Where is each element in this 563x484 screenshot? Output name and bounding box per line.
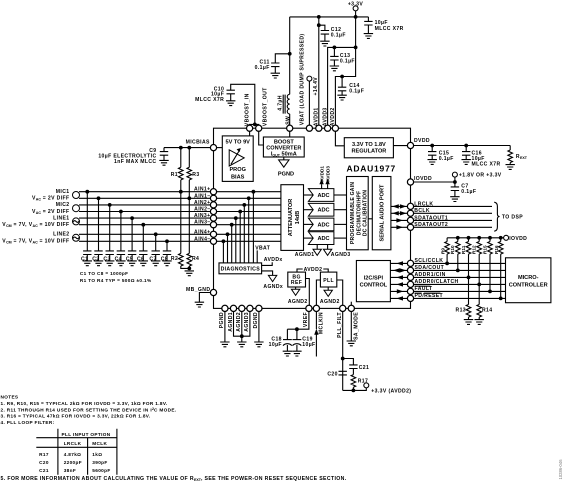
- ground AGND2 under BG REF: [288, 287, 308, 305]
- junction ADDR1 R11: [467, 276, 471, 280]
- pin PLL_FILT wire: [337, 308, 343, 390]
- svg-text:C7: C7: [149, 256, 156, 262]
- wire AIN4- row: [79, 240, 214, 242]
- svg-text:5600pF: 5600pF: [92, 468, 110, 473]
- resistor R11: [461, 238, 471, 278]
- svg-text:R4: R4: [192, 256, 199, 262]
- pin MCLKIN wire with arrow: [314, 308, 324, 356]
- wire SDA/COUT: [414, 269, 506, 271]
- svg-text:BIAS: BIAS: [231, 174, 245, 180]
- svg-text:10µF: 10µF: [302, 342, 315, 348]
- pin AVDD2: [332, 125, 338, 131]
- svg-text:MB_GND: MB_GND: [186, 287, 210, 293]
- svg-text:C20: C20: [39, 460, 49, 465]
- svg-text:10µF: 10µF: [269, 342, 282, 348]
- svg-text:R1 TO R4 TYP = 500Ω ±0.1%: R1 TO R4 TYP = 500Ω ±0.1%: [80, 278, 152, 283]
- pin SA_MODE: [348, 305, 354, 311]
- svg-text:DGND: DGND: [253, 312, 259, 329]
- pin FAULT: [407, 288, 413, 294]
- wire PLL to MCLKIN pin: [316, 280, 320, 308]
- junction R2/R4 ground node: [187, 267, 191, 271]
- capacitor C14: [337, 77, 364, 101]
- capacitor C7 input: [149, 232, 160, 265]
- svg-text:AGNDx: AGNDx: [263, 284, 283, 290]
- wire AIN1- row: [79, 197, 214, 199]
- connector MIC2: [32, 202, 80, 215]
- wire PD/RESET: [414, 297, 506, 299]
- ground PGND arrow: [278, 157, 294, 178]
- svg-text:PROGRAMMABLE GAIN: PROGRAMMABLE GAIN: [350, 182, 356, 244]
- svg-text:3.3V TO 1.8V: 3.3V TO 1.8V: [352, 142, 386, 148]
- junction R1 AIN1+: [179, 190, 183, 194]
- wire SW internal: [289, 128, 291, 137]
- resistor R2: [171, 192, 189, 269]
- pin VBOOST_OUT: [256, 125, 262, 131]
- junction R3 AIN1-: [187, 196, 191, 200]
- wire IOVDD pullup rail: [447, 237, 504, 239]
- wire AIN1+ row: [79, 191, 214, 193]
- capacitor 10uF MLCC X7R (top right): [364, 17, 404, 38]
- svg-text:MIC2: MIC2: [56, 202, 70, 208]
- wire serial port SDATAOUT1: [391, 218, 408, 222]
- svg-text:REGULATOR: REGULATOR: [351, 148, 386, 154]
- junction rail R16: [499, 236, 503, 240]
- svg-text:1. R9, R10, R15 = TYPICAL 2kΩ: 1. R9, R10, R15 = TYPICAL 2kΩ FOR IOVDD …: [1, 401, 168, 406]
- wire ADDR1/CIN internal: [390, 275, 407, 279]
- svg-text:1nF MAX MLCC: 1nF MAX MLCC: [114, 159, 156, 165]
- pin AIN1-: [210, 195, 216, 201]
- svg-text:AIN1–: AIN1–: [194, 193, 210, 199]
- wire PD/RESET internal: [390, 296, 407, 300]
- svg-text:MCLK: MCLK: [92, 441, 107, 446]
- pin AGND3 wire: [242, 308, 250, 336]
- label FAULT overline: [415, 286, 433, 292]
- block 5V TO 9V PROG BIAS U-internal: [222, 136, 253, 182]
- svg-text:MIC1: MIC1: [56, 189, 70, 195]
- svg-text:AVDD1: AVDD1: [314, 107, 320, 126]
- svg-text:AVDD3: AVDD3: [325, 166, 330, 182]
- junction C15: [430, 144, 434, 148]
- svg-text:MLCC X7R: MLCC X7R: [195, 97, 224, 103]
- svg-text:C21: C21: [39, 468, 49, 473]
- svg-text:AIN4+: AIN4+: [194, 229, 210, 235]
- svg-text:AIN3+: AIN3+: [194, 213, 210, 219]
- svg-text:AVDD1: AVDD1: [319, 166, 324, 182]
- junction MICBIAS R1: [179, 146, 183, 150]
- svg-text:SCL/CCLK: SCL/CCLK: [415, 258, 444, 264]
- svg-text:C3: C3: [103, 256, 110, 262]
- svg-text:AGND3: AGND3: [244, 312, 250, 332]
- svg-text:SDA/COUT: SDA/COUT: [415, 265, 445, 271]
- pin SDATAOUT2: [407, 224, 413, 230]
- svg-text:C21: C21: [359, 365, 369, 371]
- wire SW / boost inductor branch: [289, 17, 291, 94]
- svg-text:NOTES: NOTES: [1, 395, 19, 400]
- svg-text:2200pF: 2200pF: [64, 460, 82, 465]
- source LINE1: [2, 216, 79, 229]
- resistor R17: [351, 375, 368, 391]
- resistor R13: [456, 277, 474, 324]
- ground AGND1 under ADCs: [295, 245, 322, 259]
- wire BCLK to DSP: [414, 212, 492, 214]
- net AVDD1 arrow above ADC: [319, 166, 324, 189]
- node +14.4V terminal: [307, 76, 319, 95]
- capacitor C13: [330, 47, 355, 70]
- pin VREF: [306, 305, 312, 311]
- svg-text:AVDDx: AVDDx: [264, 257, 283, 263]
- ADC 1: [308, 189, 334, 202]
- svg-text:PLL INPUT OPTION: PLL INPUT OPTION: [62, 432, 111, 437]
- svg-text:+3.3V (AVDD2): +3.3V (AVDD2): [371, 388, 411, 394]
- capacitor C9: [98, 148, 168, 166]
- wire attenuator to ADC4: [304, 237, 314, 239]
- ADC 2: [308, 203, 334, 216]
- wire PLL filter bottom: [343, 388, 367, 391]
- block 3.3V TO 1.8V REGULATOR: [344, 138, 393, 158]
- svg-text:R17: R17: [39, 452, 49, 457]
- pin LRCLK: [407, 203, 413, 209]
- pin SA_MODE wire to ground: [347, 308, 360, 345]
- node IOVDD terminal right: [504, 235, 528, 242]
- svg-text:4.7µH: 4.7µH: [277, 95, 283, 111]
- junction rail R11: [467, 236, 471, 240]
- svg-text:R10: R10: [450, 245, 455, 254]
- wire ADC4 to gain block: [334, 237, 347, 239]
- pin SW: [287, 125, 293, 131]
- capacitor C10: [195, 84, 255, 124]
- pin MB_GND wire: [186, 287, 213, 307]
- svg-text:VCM = 7V, VAC = 10V DIFF: VCM = 7V, VAC = 10V DIFF: [2, 222, 69, 228]
- svg-text:0.1µF: 0.1µF: [340, 59, 355, 65]
- pin AGND2 wire to ground: [236, 308, 246, 346]
- wire AIN3+ row: [79, 217, 214, 219]
- capacitor C3: [103, 203, 114, 266]
- svg-text:REF: REF: [291, 280, 302, 286]
- svg-text:ATTENUATOR: ATTENUATOR: [288, 199, 294, 237]
- junction on rail at +3.3V: [354, 15, 358, 19]
- capacitor C11: [255, 54, 290, 78]
- svg-text:DIAGNOSTICS: DIAGNOSTICS: [221, 267, 261, 273]
- wire FAULT: [414, 290, 506, 292]
- junction SDA R10: [456, 269, 460, 273]
- junction C13 tap: [333, 46, 337, 50]
- junction ADDR0 R12: [477, 283, 481, 287]
- pin SCL/CCLK: [407, 260, 413, 266]
- svg-text:DVDD: DVDD: [414, 138, 430, 144]
- wire AIN3+ internal: [214, 216, 281, 263]
- block BG REF: [288, 272, 306, 287]
- wire LRCLK to DSP: [414, 205, 492, 207]
- wire AIN2+ internal: [214, 203, 281, 263]
- svg-text:MLCC X7R: MLCC X7R: [472, 162, 501, 168]
- svg-text:AVDD3: AVDD3: [322, 107, 328, 126]
- svg-text:C5: C5: [126, 256, 133, 262]
- block BOOST CONVERTER: [263, 137, 304, 157]
- capacitor C16: [462, 146, 501, 168]
- svg-text:DECIMATOR/HPF: DECIMATOR/HPF: [356, 191, 362, 236]
- wire FAULT internal: [390, 289, 407, 293]
- junction AVDD3 feed: [354, 46, 358, 50]
- wire AIN3- row: [79, 224, 214, 226]
- pin VBOOST_IN: [247, 125, 253, 131]
- svg-text:VAC = 2V DIFF: VAC = 2V DIFF: [32, 196, 70, 202]
- svg-text:SDATAOUT1: SDATAOUT1: [414, 215, 448, 221]
- svg-text:MLCC X7R: MLCC X7R: [375, 26, 404, 32]
- svg-text:4. PLL LOOP FILTER:: 4. PLL LOOP FILTER:: [1, 420, 55, 425]
- ground AGNDx stub: [262, 271, 284, 290]
- svg-text:SERIAL AUDIO PORT: SERIAL AUDIO PORT: [380, 184, 386, 241]
- capacitor C21: [343, 359, 369, 375]
- svg-text:MICBIAS: MICBIAS: [186, 139, 210, 145]
- resistor R16: [494, 238, 503, 299]
- svg-text:C1 TO C8 = 1000pF: C1 TO C8 = 1000pF: [80, 271, 128, 276]
- wire ADDR0/CLATCH internal: [390, 282, 407, 286]
- ADC 4: [308, 232, 334, 245]
- wire +3.3V rail: [290, 16, 369, 18]
- wire BG REF to VREF pin: [306, 279, 310, 309]
- junction C12 tap: [317, 23, 321, 27]
- wire AVDD1 supply: [318, 17, 320, 128]
- svg-text:AGND2: AGND2: [320, 299, 340, 305]
- inductor 4.7uH: [277, 94, 289, 114]
- wire VBOOST_OUT internal: [259, 128, 264, 145]
- pin PD/RESET: [407, 295, 413, 301]
- svg-text:AGND1: AGND1: [228, 312, 234, 332]
- pin MICBIAS internal stub: [214, 147, 223, 149]
- IC ADAU1977 outline: [214, 128, 411, 308]
- svg-text:BCLK: BCLK: [414, 208, 430, 214]
- resistor R10: [450, 238, 460, 271]
- svg-text:14dB: 14dB: [295, 211, 301, 225]
- wire AIN2+ row: [79, 204, 214, 206]
- wire attenuator to ADC3: [304, 223, 314, 225]
- pin MICBIAS: [210, 145, 216, 151]
- pin AGND2: [239, 305, 245, 311]
- svg-text:R13: R13: [456, 307, 466, 313]
- svg-text:R14: R14: [482, 307, 492, 313]
- pin PLL_FILT: [340, 305, 346, 311]
- junction C7 node: [453, 180, 457, 184]
- junction rail R12: [477, 236, 481, 240]
- junction SCL R9: [445, 262, 449, 266]
- svg-text:CONTROLLER: CONTROLLER: [509, 282, 548, 288]
- svg-text:REXT: REXT: [516, 154, 528, 160]
- wire AVDD2 supply: [335, 47, 355, 128]
- capacitor C4: [115, 210, 126, 266]
- net VBAT tap to diagnostics: [255, 245, 271, 263]
- svg-text:5V TO 9V: 5V TO 9V: [225, 140, 250, 146]
- pin AVDD3: [325, 125, 331, 131]
- table PLL loop filter: [36, 429, 117, 475]
- svg-text:AGND3: AGND3: [331, 252, 351, 258]
- svg-text:R11: R11: [461, 245, 466, 254]
- svg-text:I2C/SPI: I2C/SPI: [364, 276, 384, 282]
- junction C11 tap: [288, 52, 292, 56]
- wire AIN1+ internal: [214, 190, 281, 263]
- svg-text:VBAT (LOAD DUMP SUPRESSED): VBAT (LOAD DUMP SUPRESSED): [300, 34, 306, 126]
- wire AVDD2 internal to regulator: [335, 128, 344, 146]
- pin MB_GND: [210, 289, 216, 295]
- svg-text:SDATAOUT2: SDATAOUT2: [414, 222, 448, 228]
- pin MCLKIN: [313, 305, 319, 311]
- svg-text:AIN4–: AIN4–: [194, 236, 210, 242]
- source LINE2: [2, 232, 79, 245]
- svg-text:SW: SW: [285, 116, 291, 125]
- svg-text:R2: R2: [171, 256, 178, 262]
- ground AGND2 under PLL: [320, 287, 340, 305]
- resistor REXT: [506, 146, 528, 170]
- wire gain block to serial port: [368, 218, 372, 220]
- junction C14 tap: [340, 75, 344, 79]
- pin AIN3-: [210, 222, 216, 228]
- svg-text:5. FOR MORE INFORMATION ABOUT: 5. FOR MORE INFORMATION ABOUT CALCULATIN…: [1, 476, 347, 482]
- wire ADDR1/CIN: [414, 276, 506, 278]
- wire ADDR0/CLATCH: [414, 283, 506, 285]
- wire attenuator to ADC1: [304, 194, 314, 196]
- svg-text:VAC = 2V DIFF: VAC = 2V DIFF: [32, 209, 70, 215]
- capacitor C7: [450, 182, 476, 202]
- wire AIN2- internal: [214, 210, 281, 263]
- wire AIN4- internal: [214, 239, 281, 262]
- pin ADDR0/CLATCH: [407, 281, 413, 287]
- svg-text:AGND2: AGND2: [288, 299, 308, 305]
- junction R17 bottom: [352, 389, 356, 393]
- ADC 3: [308, 218, 334, 231]
- resistor R3: [187, 148, 200, 199]
- svg-text:+14.4V: +14.4V: [313, 77, 319, 96]
- junction rail R15: [488, 236, 492, 240]
- pin DGND: [256, 305, 262, 311]
- junction PD/RESET R16: [499, 297, 503, 301]
- block MICRO-CONTROLLER: [506, 258, 551, 303]
- ground R4: [185, 271, 194, 276]
- capacitor C1: [81, 190, 92, 266]
- wire AIN4+ row: [79, 233, 214, 235]
- wire ADC2 to gain block: [334, 209, 347, 211]
- capacitor C2: [92, 196, 103, 265]
- pin VREF wire: [287, 308, 309, 329]
- svg-text:38nF: 38nF: [64, 468, 76, 473]
- pin SDA/COUT: [407, 267, 413, 273]
- svg-text:R15: R15: [482, 245, 487, 254]
- node +3.3V (AVDD2) terminal: [364, 383, 412, 395]
- svg-text:LINE1: LINE1: [53, 216, 69, 222]
- pin ADDR1/CIN: [407, 274, 413, 280]
- wire AIN1- internal: [214, 196, 281, 262]
- svg-text:C8: C8: [161, 256, 168, 262]
- resistor R1: [171, 148, 183, 192]
- pin PGND wire to ground: [219, 308, 229, 346]
- pin AIN3+: [210, 215, 216, 221]
- capacitor C18: [269, 329, 292, 356]
- svg-text:MCLKIN: MCLKIN: [319, 312, 325, 334]
- wire VBOOST_IN internal: [249, 128, 251, 136]
- connector MIC1: [32, 189, 80, 202]
- svg-text:ADC: ADC: [317, 193, 329, 199]
- svg-text:SA_MODE: SA_MODE: [353, 312, 359, 340]
- net AVDDx stub: [262, 257, 283, 266]
- wire ADC3 to gain block: [334, 223, 347, 225]
- svg-text:ADAU1977: ADAU1977: [346, 163, 395, 173]
- pin AGND3: [247, 305, 253, 311]
- svg-text:ADC: ADC: [317, 236, 329, 242]
- wire AIN4+ internal: [214, 232, 281, 262]
- block ATTENUATOR 14dB: [281, 185, 304, 251]
- pin SDATAOUT1: [407, 217, 413, 223]
- wire regulator to DVDD pin: [393, 145, 410, 147]
- wire SA_MODE internal: [350, 302, 352, 309]
- block DIAGNOSTICS: [219, 263, 262, 274]
- svg-text:1kΩ: 1kΩ: [92, 452, 102, 457]
- pin AGND1: [230, 305, 236, 311]
- wire SCL/CCLK internal: [390, 261, 407, 265]
- svg-text:3. R16 = TYPICAL 47kΩ FOR IOVD: 3. R16 = TYPICAL 47kΩ FOR IOVDD = 3.3V, …: [1, 414, 151, 419]
- svg-text:CONTROL: CONTROL: [360, 283, 388, 289]
- svg-text:IOVDD: IOVDD: [509, 236, 527, 242]
- svg-text:390pF: 390pF: [92, 460, 107, 465]
- capacitor C20: [327, 371, 347, 377]
- block SERIAL AUDIO PORT: [372, 177, 391, 250]
- pin VBAT: [306, 125, 312, 131]
- wire serial port SDATAOUT2: [391, 225, 408, 229]
- svg-text:AVDD2: AVDD2: [330, 107, 336, 126]
- svg-text:10286-046: 10286-046: [558, 459, 563, 480]
- pin AIN2+: [210, 202, 216, 208]
- svg-text:ADC: ADC: [317, 208, 329, 214]
- pin IOVDD: [407, 179, 413, 185]
- node +3.3V terminal: [348, 2, 364, 17]
- svg-text:R16: R16: [494, 245, 499, 254]
- svg-text:AIN2+: AIN2+: [194, 200, 210, 206]
- wire AVDD3 supply: [328, 47, 356, 128]
- resistor R4: [187, 198, 199, 268]
- svg-text:0.1µF: 0.1µF: [331, 32, 346, 38]
- junction C19 tap: [295, 327, 299, 331]
- wire MICBIAS: [164, 147, 214, 149]
- capacitor C5: [126, 216, 137, 265]
- svg-text:MICRO-: MICRO-: [518, 275, 539, 281]
- svg-text:IOVDD: IOVDD: [414, 176, 432, 182]
- svg-text:4.87kΩ: 4.87kΩ: [64, 452, 82, 457]
- pin AIN2-: [210, 208, 216, 214]
- svg-text:C4: C4: [115, 256, 122, 262]
- svg-text:VBOOST_IN: VBOOST_IN: [244, 93, 250, 126]
- pin BCLK: [407, 210, 413, 216]
- node +1.8V OR +3.3V terminal: [452, 172, 501, 182]
- junction rail R10: [456, 236, 460, 240]
- pin DGND wire to ground: [253, 308, 263, 346]
- wire attenuator to ADC2: [304, 209, 314, 211]
- pin AVDD1: [316, 125, 322, 131]
- block PROGRAMMABLE GAIN DECIMATOR/HPF DC CALIBRATION: [347, 177, 369, 250]
- wire PLL to PLL_FILT pin: [337, 280, 343, 308]
- pin AGND1 wire: [228, 308, 242, 336]
- wire SCL/CCLK: [414, 262, 506, 264]
- svg-text:C6: C6: [137, 256, 144, 262]
- svg-text:R9: R9: [440, 248, 445, 254]
- capacitor C19: [292, 329, 315, 356]
- wire +3.3V vertical feed: [355, 17, 357, 48]
- ground AGND3 under ADCs: [323, 245, 350, 259]
- svg-text:AIN2–: AIN2–: [194, 207, 210, 213]
- pin AIN4+: [210, 231, 216, 237]
- net AVDD3 arrow above ADC: [325, 166, 330, 189]
- svg-text:TO DSP: TO DSP: [502, 215, 523, 221]
- wire serial port BCLK: [391, 211, 408, 215]
- wire DVDD: [414, 145, 511, 147]
- junction on rail at AVDD1: [317, 15, 321, 19]
- svg-text:LINE2: LINE2: [53, 232, 69, 238]
